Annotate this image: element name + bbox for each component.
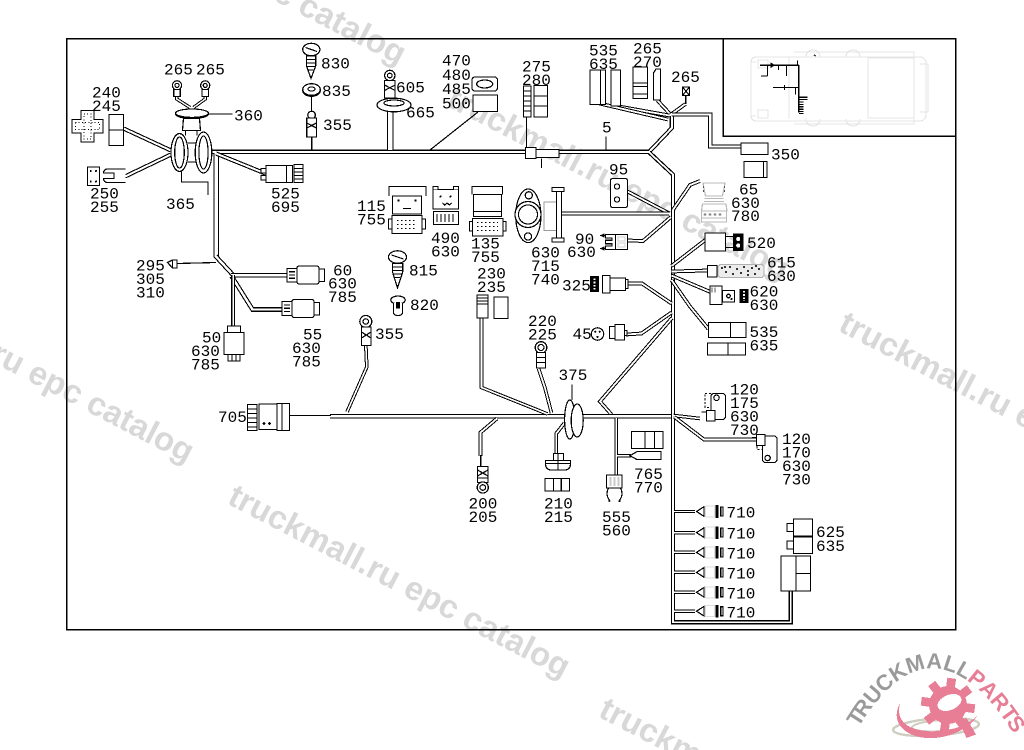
part 265 banded bbox=[633, 67, 648, 99]
arrow 295 bbox=[168, 260, 178, 268]
wire to 120/170 bbox=[675, 417, 758, 440]
part 470/485 oval plate bbox=[472, 77, 498, 91]
svg-text:325: 325 bbox=[562, 278, 591, 296]
wire to 295 arrow bbox=[177, 263, 216, 264]
logo shadow swirls bbox=[893, 716, 980, 739]
ring terminal 265 a bbox=[172, 81, 181, 97]
wire stub 120/175 bbox=[674, 416, 701, 419]
wire right bus upper bbox=[649, 152, 673, 414]
wire upper trunk bbox=[211, 150, 649, 154]
pointer 5 bbox=[605, 137, 607, 150]
bracket plate bbox=[544, 188, 564, 243]
part 480/500 box bbox=[473, 95, 498, 112]
main frame bbox=[67, 39, 956, 630]
wire 710 stubs bbox=[674, 510, 695, 513]
wire 635 diagonal bbox=[616, 106, 670, 116]
wire to 615 bbox=[672, 271, 709, 272]
wire to connector 55 bbox=[232, 276, 284, 310]
svg-text:270: 270 bbox=[633, 54, 662, 72]
connector box 2cell bbox=[109, 115, 124, 146]
wire box to grommet bbox=[124, 129, 172, 151]
relay 95 bbox=[611, 179, 628, 208]
wire K to 270 bbox=[658, 101, 671, 115]
connector 520 bbox=[705, 233, 744, 251]
lamp 65/630/780 bbox=[702, 183, 728, 222]
svg-text:710: 710 bbox=[727, 565, 756, 583]
svg-text:835: 835 bbox=[322, 83, 351, 101]
fork 250/255 bbox=[104, 169, 126, 183]
svg-text:830: 830 bbox=[321, 56, 350, 74]
valve 210/215 bbox=[545, 454, 571, 492]
grommet 375 bbox=[565, 400, 575, 439]
svg-text:785: 785 bbox=[191, 357, 220, 375]
wire to connector 525 bbox=[216, 154, 267, 175]
inset truck outline (faint) bbox=[751, 50, 928, 126]
connector 350 b bbox=[744, 162, 767, 178]
part 275 striped bbox=[524, 86, 532, 117]
inset box top-right bbox=[723, 39, 956, 137]
wire to lamp 65 bbox=[673, 181, 700, 210]
grommet 665 bbox=[377, 98, 411, 112]
svg-text:560: 560 bbox=[602, 523, 631, 541]
connector 55 bbox=[282, 300, 320, 318]
logo truckmall parts bbox=[842, 648, 1024, 738]
connector 625/635 bbox=[781, 519, 813, 591]
washer 835 bbox=[303, 84, 321, 97]
connector 705 bbox=[248, 404, 290, 431]
wire 90 bbox=[628, 217, 672, 241]
svg-text:710: 710 bbox=[727, 525, 756, 543]
inline connector on trunk bbox=[526, 148, 537, 159]
connector 620/630 bbox=[710, 286, 749, 305]
svg-text:710: 710 bbox=[727, 545, 756, 563]
part 280 box bbox=[534, 86, 548, 118]
wire junction to 60/55/50 bbox=[216, 256, 233, 275]
box 765/770 bbox=[630, 432, 663, 460]
pointer 360 bbox=[209, 113, 233, 115]
wire 220 drop bbox=[539, 369, 552, 414]
wire 355b drop bbox=[347, 345, 367, 412]
connector 120/175 bbox=[702, 394, 726, 422]
svg-text:695: 695 bbox=[271, 199, 300, 217]
sensor 135/755 bbox=[470, 187, 507, 237]
svg-text:755: 755 bbox=[471, 249, 500, 267]
pin 605 bbox=[385, 70, 396, 98]
svg-text:A: A bbox=[926, 648, 943, 674]
svg-text:255: 255 bbox=[90, 199, 119, 217]
svg-text:630: 630 bbox=[750, 297, 779, 315]
svg-text:780: 780 bbox=[731, 208, 760, 226]
svg-text:730: 730 bbox=[782, 472, 811, 490]
svg-text:215: 215 bbox=[544, 509, 573, 527]
svg-text:265: 265 bbox=[196, 62, 225, 80]
wire left harness drop bbox=[213, 153, 218, 258]
connector 615/630 bbox=[708, 265, 765, 278]
wire 265 ring leads bbox=[177, 95, 190, 108]
sleeve 820 bbox=[391, 296, 405, 316]
svg-text:245: 245 bbox=[92, 98, 121, 116]
wire K to 350 bbox=[672, 115, 742, 147]
connector 50 bbox=[224, 326, 244, 361]
svg-text:730: 730 bbox=[730, 422, 759, 440]
connector 525/695 bbox=[261, 165, 303, 183]
svg-text:95: 95 bbox=[609, 162, 628, 180]
wire 555 drop bbox=[614, 418, 618, 476]
svg-text:635: 635 bbox=[589, 56, 618, 74]
wire to 535 right bbox=[672, 280, 709, 329]
svg-text:375: 375 bbox=[559, 367, 588, 385]
ring terminal 220/225 bbox=[535, 342, 547, 368]
connector 250 box bbox=[88, 167, 100, 186]
svg-text:605: 605 bbox=[396, 80, 425, 98]
part 235 box bbox=[494, 297, 508, 319]
wire K to 265 stub bbox=[671, 104, 686, 115]
wire plug 355 drop bbox=[311, 136, 313, 150]
plug 355 top bbox=[307, 111, 317, 137]
wire to connector 50 bbox=[231, 275, 235, 328]
wire 535 diagonal bbox=[600, 104, 669, 120]
svg-text:710: 710 bbox=[727, 585, 756, 603]
svg-text:710: 710 bbox=[727, 604, 756, 622]
screw 830 bbox=[303, 43, 320, 78]
plug 555/560 bbox=[607, 475, 623, 502]
svg-text:785: 785 bbox=[292, 354, 321, 372]
part 270 narrow bbox=[654, 69, 661, 100]
screw 815 bbox=[389, 251, 407, 288]
wire J1 to knot K bbox=[650, 116, 672, 152]
wire plate to bus bbox=[562, 212, 670, 216]
ring terminal 200/205 bbox=[477, 467, 488, 494]
wire 665 stem bbox=[387, 112, 394, 150]
gasket 630/715/740 bbox=[515, 189, 541, 243]
svg-text:665: 665 bbox=[406, 105, 435, 123]
grommet 365 bbox=[171, 132, 212, 173]
svg-text:705: 705 bbox=[218, 409, 247, 427]
wire 210 drop bbox=[556, 423, 564, 454]
inset harness sketch bbox=[760, 55, 816, 114]
svg-text:45: 45 bbox=[573, 326, 592, 344]
svg-text:355: 355 bbox=[375, 326, 404, 344]
part 360 bbox=[176, 109, 209, 136]
stub connector 265 right bbox=[683, 87, 690, 96]
connector 450 bbox=[591, 325, 627, 341]
710 rows bbox=[697, 505, 724, 617]
svg-text:265: 265 bbox=[671, 69, 700, 87]
connector 60 bbox=[287, 266, 325, 284]
logo pink swirl bbox=[897, 703, 978, 738]
svg-text:635: 635 bbox=[750, 338, 779, 356]
wire 705 link bbox=[290, 415, 332, 417]
connector 90 bbox=[600, 233, 628, 250]
svg-text:815: 815 bbox=[409, 263, 438, 281]
svg-text:225: 225 bbox=[528, 327, 557, 345]
svg-text:205: 205 bbox=[469, 509, 498, 527]
svg-text:365: 365 bbox=[166, 196, 195, 214]
connector cross 240/245 bbox=[72, 111, 103, 143]
part 535 top bbox=[590, 70, 606, 105]
sensor 115/755 bbox=[389, 187, 427, 234]
wire 325 bbox=[628, 284, 672, 304]
svg-text:740: 740 bbox=[531, 272, 560, 290]
ring terminal 265 b bbox=[201, 81, 210, 97]
svg-text:820: 820 bbox=[410, 297, 439, 315]
wire to 520 bbox=[672, 239, 707, 266]
svg-text:350: 350 bbox=[771, 147, 800, 165]
svg-text:710: 710 bbox=[727, 504, 756, 522]
logo gear bbox=[921, 678, 976, 738]
connector 535/635 right bbox=[708, 323, 747, 356]
wire to 620 bbox=[672, 276, 711, 293]
svg-text:235: 235 bbox=[477, 279, 506, 297]
svg-text:520: 520 bbox=[747, 235, 776, 253]
wire right bus lower bbox=[673, 413, 791, 622]
wire 765 stub bbox=[617, 454, 631, 457]
wire 95 bbox=[628, 192, 670, 214]
wire from 275 bbox=[526, 117, 528, 149]
svg-text:755: 755 bbox=[357, 212, 386, 230]
bracket 365 label bbox=[182, 172, 209, 196]
svg-text:360: 360 bbox=[234, 108, 263, 126]
connector 325 bbox=[591, 276, 629, 294]
wire to connector 60 bbox=[231, 273, 288, 278]
svg-text:280: 280 bbox=[522, 72, 551, 90]
svg-text:5: 5 bbox=[602, 120, 612, 138]
pointer 375 bbox=[571, 385, 573, 401]
wire bus to trunk diagonal bbox=[600, 318, 672, 415]
svg-text:630: 630 bbox=[431, 244, 460, 262]
svg-text:785: 785 bbox=[328, 289, 357, 307]
connector 350 a bbox=[741, 143, 768, 155]
part 635 top bbox=[611, 70, 621, 106]
svg-text:635: 635 bbox=[816, 538, 845, 556]
wire lower trunk bbox=[330, 414, 672, 419]
wire from 500 bbox=[430, 112, 478, 150]
svg-text:500: 500 bbox=[442, 96, 471, 114]
wire 200 drop bbox=[481, 419, 498, 457]
svg-text:355: 355 bbox=[323, 117, 352, 135]
svg-text:770: 770 bbox=[634, 480, 663, 498]
connector 120/170 bbox=[752, 435, 777, 463]
wire fork 250 to grommet bbox=[125, 155, 171, 177]
svg-text:310: 310 bbox=[136, 285, 165, 303]
sensor 490/630 bbox=[433, 187, 459, 225]
svg-text:265: 265 bbox=[164, 62, 193, 80]
part 230 striped bbox=[477, 295, 488, 318]
ring terminal 355 b bbox=[360, 316, 372, 346]
svg-text:630: 630 bbox=[567, 244, 596, 262]
wire 230 drop bbox=[482, 318, 548, 414]
wire 450 bbox=[626, 313, 672, 335]
